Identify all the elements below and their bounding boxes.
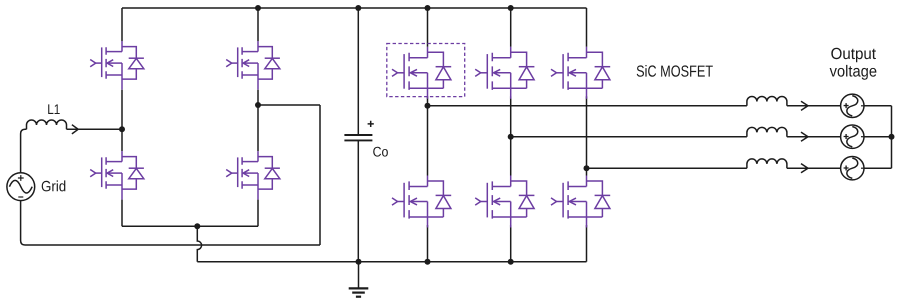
node right output bus <box>889 134 895 140</box>
inductor L1 <box>27 120 67 129</box>
arrow on phase A <box>801 101 808 110</box>
wire phase A to source <box>787 105 841 107</box>
wire H-bridge left leg middle <box>121 90 123 151</box>
label Grid <box>42 180 66 191</box>
wire H-bridge right leg upper <box>257 8 259 41</box>
wire H-bridge right leg middle <box>257 90 259 151</box>
wire phase A source to right bus <box>864 105 892 107</box>
capacitor Co plates <box>344 135 372 140</box>
wire bottom DC bus <box>197 261 586 263</box>
arrow on L1 wire <box>72 125 78 134</box>
node H-bridge rail <box>194 223 200 229</box>
wire capacitor leg lower <box>357 140 359 261</box>
inductor phase C <box>747 159 787 168</box>
node top bus / right leg <box>255 5 261 11</box>
node bottom bus / ground <box>356 259 362 265</box>
MOSFET Q6 inverter top leg2 <box>475 47 534 99</box>
MOSFET Q1 H-bridge top-left <box>90 41 144 90</box>
node phase A <box>425 103 431 109</box>
wire phase B source to right bus <box>864 136 892 138</box>
label + of capacitor <box>368 121 374 127</box>
inductor phase B <box>747 127 787 136</box>
node bottom bus / leg1 <box>425 259 431 265</box>
label Co <box>373 147 388 157</box>
MOSFET Q10 inverter bottom leg3 <box>551 176 610 228</box>
wire L1 to left leg <box>67 128 123 130</box>
wire phase leg1 lower <box>427 225 429 262</box>
node bottom bus / leg2 <box>508 259 514 265</box>
MOSFET Q5 inverter top leg1 <box>392 47 451 99</box>
wire phase B output <box>511 136 747 138</box>
dashed highlight box around Q5 <box>387 44 465 97</box>
label L1 <box>48 104 60 114</box>
wire return vertical <box>319 105 321 245</box>
node top bus / cap <box>355 5 361 11</box>
wire rail to bottom bus with crossover hop <box>197 226 201 261</box>
wire grid to L1 <box>21 129 27 173</box>
MOSFET Q8 inverter bottom leg1 <box>392 176 451 228</box>
output AC source 2 <box>841 125 864 148</box>
wire H-bridge left leg upper <box>121 8 123 41</box>
node top bus / leg1 <box>425 5 431 11</box>
wire phase leg3 middle <box>586 96 588 175</box>
wire capacitor leg upper <box>357 8 359 135</box>
node top bus / leg2 <box>508 5 514 11</box>
node phase C <box>584 165 590 171</box>
node left leg midpoint <box>119 126 125 132</box>
label Output voltage <box>831 48 876 63</box>
MOSFET Q4 H-bridge bottom-right <box>226 151 280 200</box>
wire phase leg2 middle <box>510 96 512 175</box>
wire phase leg1 upper <box>427 8 429 47</box>
wire phase C output <box>587 167 747 169</box>
wire phase B to source <box>787 136 841 138</box>
ground symbol <box>349 262 369 297</box>
wire phase leg3 lower <box>586 225 588 262</box>
wire right output bus <box>891 106 893 168</box>
wire phase A output <box>428 105 747 107</box>
wire H-bridge bottom rail <box>122 225 258 227</box>
MOSFET Q9 inverter bottom leg2 <box>475 176 534 228</box>
inductor phase A <box>747 97 787 106</box>
arrow on phase C <box>801 164 808 173</box>
output AC source 3 <box>841 157 864 180</box>
wire H-bridge right leg lower <box>257 200 259 227</box>
MOSFET Q3 H-bridge bottom-left <box>90 151 144 200</box>
MOSFET Q7 inverter top leg3 <box>551 47 610 99</box>
wire phase C source to right bus <box>864 167 892 169</box>
output AC source 1 <box>841 94 864 117</box>
wire top DC bus <box>122 7 587 9</box>
wire phase leg1 middle <box>427 96 429 175</box>
wire phase leg2 lower <box>510 225 512 262</box>
wire phase leg3 upper <box>586 8 588 47</box>
wire H-bridge left leg lower <box>121 200 123 227</box>
wire phase C to source <box>787 167 841 169</box>
wire grid return horizontal <box>21 201 320 245</box>
grid AC source <box>7 173 35 201</box>
wire phase leg2 upper <box>510 8 512 47</box>
wire right leg midpoint to return <box>258 104 320 106</box>
arrow on phase B <box>801 132 808 141</box>
label SiC MOSFET <box>637 65 713 77</box>
node right leg midpoint <box>255 102 261 108</box>
MOSFET Q2 H-bridge top-right <box>226 41 280 90</box>
node phase B <box>508 134 514 140</box>
